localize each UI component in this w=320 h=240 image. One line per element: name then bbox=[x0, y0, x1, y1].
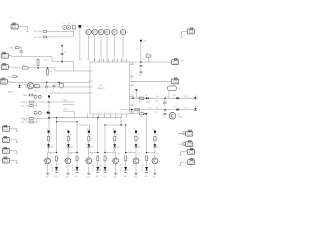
svg-text:P: P bbox=[131, 73, 132, 75]
svg-text:C1: C1 bbox=[72, 24, 74, 26]
wire cluster net A bbox=[50, 30, 74, 32]
svg-text:44: 44 bbox=[141, 170, 143, 172]
label N2 right bbox=[156, 108, 188, 110]
svg-text:1N: 1N bbox=[92, 168, 94, 170]
label bottom-left bbox=[23, 119, 30, 121]
wire net U1-to-J9 bbox=[130, 61, 169, 63]
transistor Q7 bbox=[168, 113, 183, 120]
svg-text:OUT: OUT bbox=[131, 63, 134, 65]
diode D12 bbox=[173, 106, 179, 110]
svg-text:RX_EN1: RX_EN1 bbox=[34, 37, 41, 39]
connector J16 bbox=[179, 159, 195, 166]
svg-text:Y1: Y1 bbox=[63, 23, 65, 25]
connector J10 (right SMA) bbox=[169, 78, 179, 84]
svg-text:44: 44 bbox=[51, 170, 53, 172]
svg-text:R10: R10 bbox=[146, 53, 149, 55]
svg-text:1k: 1k bbox=[138, 138, 140, 140]
capacitor C6 (polar) bbox=[56, 82, 63, 89]
svg-text:8: 8 bbox=[108, 60, 109, 62]
capacitor C11 (polar) bbox=[155, 110, 166, 118]
svg-text:GND: GND bbox=[45, 177, 48, 179]
crystal Y1 bbox=[63, 23, 67, 30]
svg-text:3: 3 bbox=[126, 112, 127, 114]
resistor R10 bbox=[146, 53, 151, 62]
svg-text:P: P bbox=[131, 79, 132, 81]
svg-text:1N: 1N bbox=[120, 168, 122, 170]
resistor R3 (vertical) bbox=[33, 58, 47, 69]
svg-text:GND: GND bbox=[96, 176, 99, 178]
svg-text:D11: D11 bbox=[120, 165, 123, 167]
svg-text:OUT: OUT bbox=[180, 61, 183, 63]
power flag N1 bbox=[194, 95, 197, 100]
svg-text:GND: GND bbox=[134, 177, 137, 179]
node VCC riser bbox=[137, 40, 148, 77]
svg-text:D10: D10 bbox=[100, 165, 103, 167]
capacitor C1 bbox=[72, 24, 76, 29]
wire J2 net bbox=[11, 57, 52, 62]
net label row RX1 bbox=[34, 36, 49, 39]
svg-text:GND: GND bbox=[103, 176, 106, 178]
svg-text:TP: TP bbox=[121, 27, 123, 29]
wire net into U1 87 bbox=[25, 86, 90, 88]
svg-text:OUT: OUT bbox=[131, 112, 134, 114]
U1 left pins bbox=[89, 71, 94, 95]
net seg NET1 bbox=[63, 100, 74, 104]
svg-text:P: P bbox=[131, 76, 132, 78]
svg-text:Q5: Q5 bbox=[138, 153, 140, 155]
svg-text:OUT: OUT bbox=[131, 84, 134, 86]
svg-text:3: 3 bbox=[121, 112, 122, 114]
svg-text:TP: TP bbox=[87, 27, 89, 29]
svg-text:D9: D9 bbox=[92, 165, 94, 167]
wire bus C bbox=[77, 122, 89, 131]
svg-text:R16: R16 bbox=[156, 108, 159, 110]
test point TP5 bbox=[112, 27, 117, 35]
svg-text:SDA_IO1: SDA_IO1 bbox=[21, 101, 29, 104]
svg-text:OUT: OUT bbox=[131, 95, 134, 97]
svg-text:OUT 0-3: OUT 0-3 bbox=[23, 119, 30, 121]
svg-text:Q2: Q2 bbox=[70, 153, 72, 155]
svg-text:L1: L1 bbox=[82, 26, 84, 28]
svg-text:GND: GND bbox=[114, 177, 117, 179]
svg-text:1N4148: 1N4148 bbox=[146, 102, 151, 104]
driver channel 4 (R, LED, Q4) bbox=[100, 129, 121, 179]
svg-text:D9: D9 bbox=[145, 95, 147, 97]
svg-text:V+: V+ bbox=[129, 89, 131, 91]
U1 bottom pins bbox=[87, 112, 127, 118]
connector J3 (left SMA) bbox=[1, 64, 11, 70]
net label row IN1 bbox=[10, 47, 23, 57]
svg-text:R4: R4 bbox=[50, 71, 52, 73]
svg-text:44: 44 bbox=[100, 170, 102, 172]
svg-text:TP: TP bbox=[99, 27, 101, 29]
crystal Y2 bbox=[67, 23, 71, 30]
driver channel 5 (R, LED, Q5) bbox=[120, 129, 141, 179]
connector J11 (jack) bbox=[167, 86, 180, 98]
svg-text:SCL_IO1: SCL_IO1 bbox=[21, 105, 29, 107]
connector J17 (top-right SMA) bbox=[184, 28, 194, 34]
connector J9 (right SMA) bbox=[169, 59, 184, 65]
svg-text:R3: R3 bbox=[33, 65, 35, 67]
svg-text:3: 3 bbox=[92, 112, 93, 114]
wire to U1 top-left bbox=[52, 61, 90, 71]
net label row PWM bbox=[21, 121, 37, 124]
ferrite FB1 (black block) bbox=[79, 25, 84, 28]
svg-text:1k: 1k bbox=[157, 138, 159, 140]
svg-text:10k: 10k bbox=[44, 60, 47, 62]
net seg NET2 bbox=[63, 109, 74, 118]
wire Q1 stub bbox=[24, 84, 27, 86]
capacitor C2 drop bbox=[61, 45, 67, 62]
test point TP3 bbox=[98, 27, 103, 35]
svg-text:AFE123: AFE123 bbox=[98, 87, 105, 90]
svg-text:1N: 1N bbox=[141, 168, 143, 170]
svg-text:GND: GND bbox=[87, 177, 90, 179]
svg-text:1k: 1k bbox=[70, 138, 72, 140]
svg-text:BAT54: BAT54 bbox=[8, 91, 13, 94]
svg-text:1N: 1N bbox=[100, 168, 102, 170]
wire FB1 stem bbox=[79, 28, 81, 60]
ferrite cluster A bbox=[34, 95, 50, 98]
svg-text:Q3: Q3 bbox=[91, 153, 93, 155]
svg-text:D13: D13 bbox=[140, 116, 143, 118]
U1 right pins bbox=[130, 63, 134, 114]
svg-text:44: 44 bbox=[72, 170, 74, 172]
U1 top pins bbox=[94, 59, 127, 63]
svg-text:VO1: VO1 bbox=[184, 96, 187, 98]
svg-text:1k: 1k bbox=[116, 138, 118, 140]
connector J2 (left SMA) bbox=[1, 52, 11, 58]
svg-text:R9: R9 bbox=[137, 49, 139, 51]
svg-text:3: 3 bbox=[98, 112, 99, 114]
svg-text:GND: GND bbox=[153, 177, 156, 179]
net label row EN bbox=[21, 117, 50, 120]
svg-text:GND: GND bbox=[144, 176, 147, 178]
connector J14 bbox=[178, 141, 193, 147]
svg-text:R5: R5 bbox=[34, 90, 36, 92]
svg-text:R11: R11 bbox=[139, 102, 142, 104]
wire bus D bbox=[104, 118, 126, 126]
wire sub risers bbox=[57, 114, 147, 153]
svg-text:D12: D12 bbox=[173, 106, 176, 108]
connector J4 (left SMA) bbox=[0, 78, 10, 84]
wire J3 net bbox=[11, 67, 22, 69]
svg-text:VIN1: VIN1 bbox=[10, 48, 14, 50]
svg-text:GND: GND bbox=[54, 176, 57, 178]
svg-text:D12: D12 bbox=[141, 165, 144, 167]
capacitor C5 (polar) bbox=[52, 82, 58, 93]
svg-text:44: 44 bbox=[120, 170, 122, 172]
svg-text:VIN2: VIN2 bbox=[8, 77, 12, 79]
resistor R12 bbox=[135, 108, 152, 111]
svg-text:RX_EN0: RX_EN0 bbox=[34, 31, 41, 33]
test point TP2 bbox=[92, 27, 97, 35]
wire bus B bbox=[56, 118, 78, 123]
svg-text:44: 44 bbox=[92, 170, 94, 172]
svg-text:1k: 1k bbox=[50, 138, 52, 140]
connector J7 (bottom-left SMA) bbox=[2, 147, 17, 153]
svg-text:TP: TP bbox=[105, 27, 107, 29]
diode D9 bbox=[145, 95, 151, 103]
wire net N1 bbox=[130, 97, 195, 99]
connector J1 (top-left SMA) bbox=[11, 23, 21, 29]
svg-text:C4: C4 bbox=[45, 91, 47, 93]
wire N2 branch bbox=[132, 110, 147, 119]
resistor R5 bbox=[34, 84, 39, 92]
svg-text:GND: GND bbox=[75, 176, 78, 178]
svg-text:Q7: Q7 bbox=[178, 114, 180, 116]
svg-text:NET2: NET2 bbox=[63, 109, 67, 111]
ferrite cluster B bbox=[34, 111, 49, 114]
svg-text:1k: 1k bbox=[90, 138, 92, 140]
wire bus A bbox=[48, 117, 121, 118]
connector J5 (bottom-left SMA) bbox=[2, 125, 17, 131]
wire TP stems down to U1 bbox=[87, 35, 123, 62]
wire J17 hook bbox=[181, 31, 185, 37]
connector J13 bbox=[178, 130, 193, 136]
svg-text:8: 8 bbox=[112, 60, 113, 62]
wire J3 net cont bbox=[28, 68, 74, 71]
diode D1 bbox=[8, 82, 21, 93]
svg-text:Q4: Q4 bbox=[118, 153, 120, 155]
wire net into U1 93 bbox=[50, 92, 90, 94]
net label row above J4 bbox=[8, 76, 19, 79]
diode D10 bbox=[173, 95, 179, 99]
svg-text:GND: GND bbox=[66, 177, 69, 179]
svg-text:GND: GND bbox=[138, 75, 141, 77]
driver channel 3 (R, LED, Q3) bbox=[85, 129, 102, 179]
test point TP1 bbox=[86, 27, 91, 35]
connector J8 (bottom-left SMA) bbox=[2, 157, 17, 163]
svg-text:D10: D10 bbox=[173, 95, 176, 97]
svg-text:C11: C11 bbox=[155, 112, 158, 114]
driver channel 2 (R, LED, Q2) bbox=[64, 129, 81, 179]
wire J4 net bbox=[9, 82, 90, 84]
wire V+ riser bbox=[129, 89, 138, 98]
net label row RX0 bbox=[34, 31, 49, 34]
resistor R11 bbox=[139, 97, 144, 104]
svg-text:TP: TP bbox=[113, 27, 115, 29]
svg-text:1N: 1N bbox=[72, 168, 74, 170]
net label row SDA bbox=[21, 101, 63, 104]
svg-text:Q1: Q1 bbox=[49, 153, 51, 155]
svg-text:NET1: NET1 bbox=[63, 100, 67, 102]
svg-text:D7: D7 bbox=[51, 165, 53, 167]
connector J15 bbox=[179, 148, 195, 155]
power flag N2 bbox=[194, 106, 197, 111]
svg-text:C2: C2 bbox=[64, 52, 66, 54]
svg-text:3: 3 bbox=[87, 112, 88, 114]
driver channel 6 (R, LED, Q6) bbox=[141, 129, 160, 179]
op-amp U1 body (main IC) bbox=[90, 62, 130, 114]
capacitor C10 (polar) bbox=[155, 98, 166, 106]
svg-text:P: P bbox=[131, 71, 132, 73]
svg-text:1N: 1N bbox=[51, 168, 53, 170]
svg-text:SCL_IO2: SCL_IO2 bbox=[21, 122, 29, 124]
transistor Q1 bbox=[26, 82, 34, 89]
driver channel 1 (R, LED, Q1) bbox=[43, 129, 60, 179]
wire riser ch0 feed bbox=[48, 97, 50, 131]
svg-text:D8: D8 bbox=[72, 165, 74, 167]
svg-text:GND: GND bbox=[124, 176, 127, 178]
connector J6 (bottom-left SMA) bbox=[2, 136, 17, 142]
svg-text:R15: R15 bbox=[156, 96, 159, 98]
svg-text:Y2: Y2 bbox=[68, 23, 70, 25]
svg-text:Q6: Q6 bbox=[157, 153, 159, 155]
resistor R4 (vertical) bbox=[47, 67, 52, 76]
svg-text:2N7002: 2N7002 bbox=[178, 117, 183, 119]
test point TP4 bbox=[104, 27, 109, 35]
svg-text:J11: J11 bbox=[178, 88, 180, 90]
capacitor C4 bbox=[45, 82, 49, 93]
net label row VREF bbox=[23, 94, 36, 97]
wire J1 hook bbox=[21, 27, 29, 32]
svg-text:VO2: VO2 bbox=[184, 108, 187, 110]
svg-text:C10: C10 bbox=[155, 100, 158, 102]
resistor R2 (series box) bbox=[23, 65, 28, 69]
wire net N2 bbox=[121, 109, 194, 111]
svg-text:OUT: OUT bbox=[131, 104, 134, 106]
test point TP6 bbox=[120, 27, 125, 35]
net label row SCL bbox=[21, 105, 37, 108]
svg-text:5V: 5V bbox=[143, 59, 145, 61]
svg-text:TP: TP bbox=[93, 27, 95, 29]
svg-text:R13: R13 bbox=[137, 112, 140, 114]
wire cluster net B bbox=[50, 29, 74, 37]
wire net U1-to-J10 bbox=[130, 80, 169, 82]
svg-text:R2: R2 bbox=[23, 65, 25, 67]
svg-text:R12: R12 bbox=[149, 108, 152, 110]
label N1 right bbox=[156, 96, 188, 98]
